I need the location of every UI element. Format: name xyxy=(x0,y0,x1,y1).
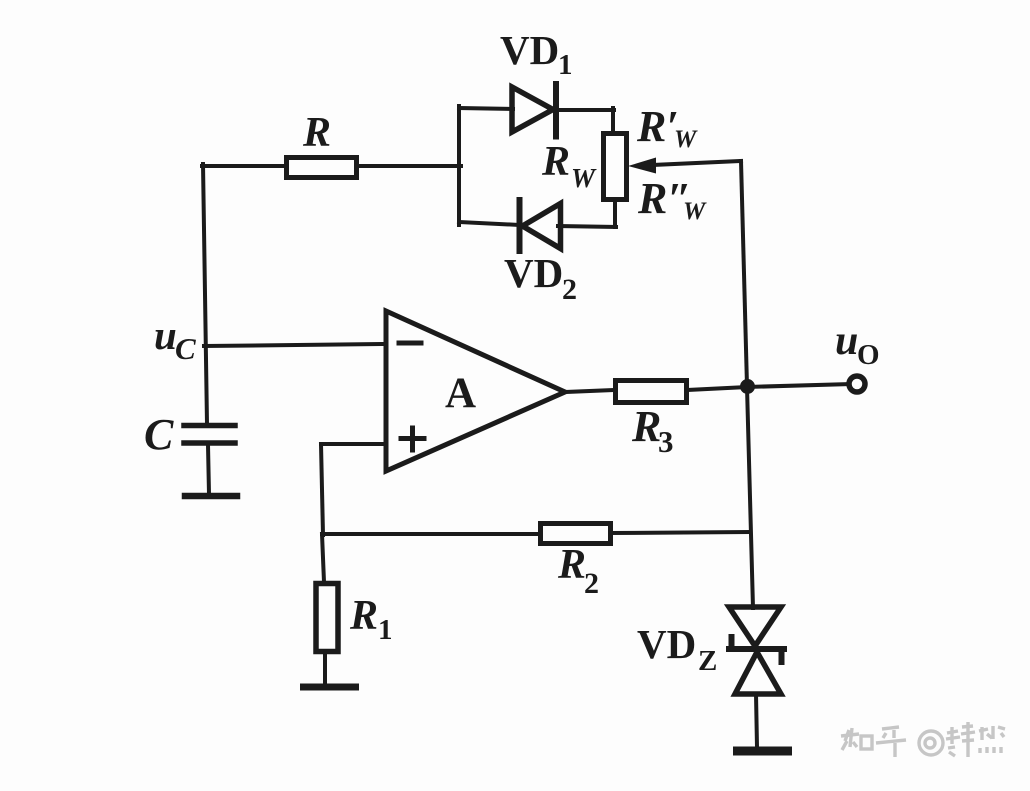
wire op-amp output to R3 xyxy=(565,390,615,392)
op-amp plus sign xyxy=(401,428,424,450)
wire noninverting input xyxy=(321,442,386,446)
op-amp minus sign xyxy=(399,341,421,346)
svg-text:3: 3 xyxy=(658,424,674,459)
wire top branch right segment xyxy=(556,108,614,112)
potentiometer RW body xyxy=(604,134,627,200)
svg-text:R: R xyxy=(541,139,570,185)
ground bar below R1 xyxy=(304,684,356,691)
op-amp A xyxy=(386,311,565,471)
svg-text:C: C xyxy=(175,331,196,366)
wire bottom branch left segment xyxy=(459,222,520,225)
resistor R xyxy=(287,158,357,178)
wire R1 top stem xyxy=(322,534,324,582)
svg-text:C: C xyxy=(144,410,174,459)
svg-text:2: 2 xyxy=(562,273,577,306)
svg-text:O: O xyxy=(857,339,880,371)
node output junction dot xyxy=(740,379,755,394)
wire diode box left vertical xyxy=(457,106,461,225)
svg-text:W: W xyxy=(571,163,597,193)
wire VDZ to ground xyxy=(756,694,757,747)
svg-text:Z: Z xyxy=(698,645,717,677)
wire top branch left segment xyxy=(459,108,513,109)
diode VD1 xyxy=(512,84,556,137)
zener VDZ bar xyxy=(729,637,784,662)
ground bar below VDZ xyxy=(738,747,788,756)
wire right vertical upper (wiper to output node) xyxy=(741,161,747,386)
wire pot top stem xyxy=(611,108,615,133)
wire feedback bottom right segment xyxy=(611,532,749,533)
wire plus input vertical down xyxy=(321,444,323,535)
capacitor C top plate xyxy=(184,423,235,429)
svg-text:u: u xyxy=(835,318,858,364)
wire R1 bottom stem xyxy=(323,654,327,686)
wire R3 to output node xyxy=(687,387,748,390)
wire capacitor to ground xyxy=(208,445,209,494)
zener VDZ bottom triangle xyxy=(735,652,781,694)
svg-text:VD: VD xyxy=(504,250,563,296)
svg-text:VD: VD xyxy=(500,27,559,73)
svg-text:R: R xyxy=(557,542,586,588)
svg-text:1: 1 xyxy=(558,49,573,81)
terminal uo open circle xyxy=(849,376,865,392)
svg-text:W: W xyxy=(674,126,698,153)
svg-text:R: R xyxy=(349,593,378,639)
resistor R3 xyxy=(616,381,687,403)
ground bar below C xyxy=(185,493,237,500)
zener VDZ top triangle xyxy=(729,607,781,646)
svg-text:R: R xyxy=(302,110,331,156)
wire bottom branch right segment xyxy=(558,226,616,227)
watermark zhihu xyxy=(841,722,1005,757)
wire right vertical lower (node to VDZ) xyxy=(747,387,753,608)
svg-text:VD: VD xyxy=(637,621,696,667)
capacitor C bottom plate xyxy=(184,440,235,446)
wire pot bottom stem xyxy=(613,200,617,227)
potentiometer wiper arrow xyxy=(628,158,656,174)
svg-text:u: u xyxy=(154,312,177,358)
wire R right segment xyxy=(357,164,461,168)
wire feedback bottom left segment xyxy=(322,532,540,536)
wire uC node to inverting input xyxy=(204,344,386,346)
svg-text:R′: R′ xyxy=(636,102,679,151)
svg-text:W: W xyxy=(683,198,707,225)
wire left vertical from R down to capacitor xyxy=(203,164,207,424)
svg-text:1: 1 xyxy=(378,614,393,646)
diode VD2 xyxy=(520,200,561,251)
svg-text:A: A xyxy=(445,370,476,417)
wire output node to terminal xyxy=(747,384,850,387)
svg-text:R: R xyxy=(631,402,661,451)
wire R left segment xyxy=(202,164,286,168)
wire wiper to right corner xyxy=(652,161,741,165)
svg-text:2: 2 xyxy=(584,567,599,600)
resistor R2 xyxy=(541,524,611,544)
resistor R1 xyxy=(316,584,338,652)
